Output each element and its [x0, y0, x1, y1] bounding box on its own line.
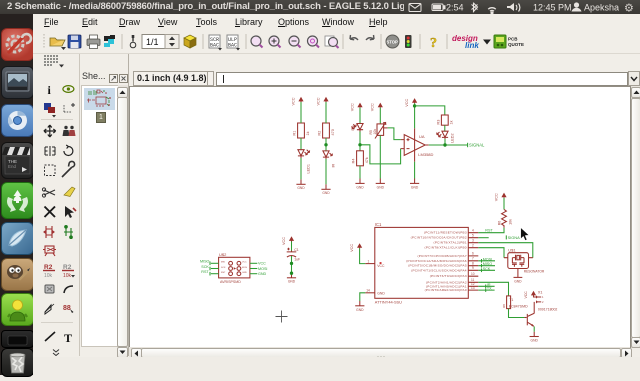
- wire VCC branch to R3: [415, 106, 445, 115]
- VCC supply for C1: [282, 236, 294, 245]
- pin 5 MOSI wire right: [250, 268, 257, 270]
- svg-text:2: 2: [542, 300, 544, 304]
- svg-text:5: 5: [472, 234, 474, 238]
- print: [87, 39, 100, 46]
- svg-text:R6: R6: [497, 221, 501, 226]
- svg-text:(PCINT4/T1/SCL/USCK/ADC4)PA4: (PCINT4/T1/SCL/USCK/ADC4)PA4: [411, 268, 467, 272]
- svg-text:1/1: 1/1: [146, 37, 159, 47]
- svg-text:U$2: U$2: [219, 252, 227, 257]
- launcher: [0, 14, 33, 375]
- op-amp U1A (LM358D): [401, 128, 434, 161]
- svg-text:VCC: VCC: [405, 99, 409, 107]
- wire PB0 to resonator left pin: [478, 248, 504, 258]
- svg-text:2: 2: [472, 244, 474, 248]
- svg-text:RST: RST: [201, 270, 209, 274]
- SCR: [209, 35, 220, 48]
- junction on R2-IR wire: [324, 143, 327, 146]
- wire node A to op-amp -input: [362, 145, 401, 164]
- svg-text:C1: C1: [294, 248, 299, 252]
- IC1 ATTINY44-SSU body: [375, 222, 469, 305]
- open: [50, 40, 65, 46]
- svg-text:(PCINT11/RESET/DW)PB3: (PCINT11/RESET/DW)PB3: [424, 231, 467, 235]
- wire VCC to R1: [300, 102, 302, 123]
- wire VCC to photodiode: [359, 108, 361, 124]
- svg-text:GND: GND: [258, 272, 267, 276]
- svg-text:BC847SMD: BC847SMD: [509, 305, 528, 309]
- svg-text:12:45 PM: 12:45 PM: [533, 3, 572, 13]
- svg-text:MISO: MISO: [483, 262, 493, 266]
- net label SIGNAL (op-amp output): [468, 143, 485, 148]
- svg-text:RESONATOR: RESONATOR: [524, 269, 545, 273]
- wire trimmer to GND: [379, 135, 381, 178]
- ground below op-amp: [410, 179, 419, 190]
- svg-text:MOSI: MOSI: [483, 257, 492, 261]
- IC1 pin 1 VCC: [365, 259, 385, 268]
- svg-text:GND: GND: [322, 191, 330, 195]
- svg-text:SCK: SCK: [201, 265, 209, 269]
- svg-text:GND: GND: [242, 272, 247, 274]
- wire VCC to R2: [325, 102, 327, 123]
- erc traffic light: [405, 35, 412, 48]
- svg-text:GND: GND: [531, 338, 539, 342]
- ULP: [227, 35, 238, 48]
- svg-text:VCC: VCC: [350, 103, 354, 111]
- ground below resonator: [514, 277, 523, 283]
- sheet spinbox: [142, 35, 179, 49]
- svg-text:GND: GND: [288, 280, 296, 284]
- svg-text:SCK: SCK: [221, 267, 226, 269]
- export/cam: [104, 36, 110, 41]
- resistor R3: [437, 115, 454, 125]
- junction on C1 wire (lower): [290, 272, 293, 275]
- svg-text:PD: PD: [351, 125, 355, 130]
- wire photodiode to R4: [359, 132, 361, 151]
- svg-text:⚙: ⚙: [624, 3, 634, 15]
- resistor R8: [502, 296, 510, 309]
- svg-text:RST: RST: [221, 272, 226, 274]
- photodiode D3 (PD): [351, 124, 363, 132]
- svg-text:VCC: VCC: [282, 237, 286, 245]
- GND pin stub C1: [291, 274, 293, 278]
- svg-text:(PCINT10/INT0/OC0A/CKOUT)PB2: (PCINT10/INT0/OC0A/CKOUT)PB2: [411, 236, 467, 240]
- svg-text:47k: 47k: [365, 157, 369, 163]
- svg-text:(PCINT0/AREF/ADC0)PA0: (PCINT0/AREF/ADC0)PA0: [425, 288, 467, 292]
- sheet origin cross: [276, 311, 288, 323]
- svg-text:LED1: LED1: [306, 164, 310, 174]
- svg-text:10k: 10k: [44, 273, 53, 279]
- svg-text:R8: R8: [502, 304, 506, 308]
- svg-text:10k: 10k: [63, 273, 72, 279]
- wire trimmer wiper to op-amp +input: [388, 128, 401, 140]
- svg-text:VCC: VCC: [377, 264, 385, 268]
- pcb quote: [494, 35, 506, 48]
- VCC supply for X1: [524, 291, 536, 299]
- svg-text:QUOTE: QUOTE: [508, 42, 524, 47]
- svg-text:R1: R1: [293, 131, 297, 136]
- pin 1 label MISO wire: [211, 262, 219, 264]
- svg-text:0091718002: 0091718002: [538, 307, 558, 311]
- svg-text:RST: RST: [485, 229, 493, 233]
- svg-text:U$1: U$1: [508, 247, 516, 252]
- mouse cursor: [521, 227, 530, 241]
- VCC supply for R2 chain: [316, 97, 328, 106]
- junction on VCC wire: [413, 104, 416, 107]
- svg-text:(PCINT6/OC1A/SDA/MOSI/ADC6)PA6: (PCINT6/OC1A/SDA/MOSI/ADC6)PA6: [406, 259, 467, 263]
- net label MISO: [200, 260, 210, 266]
- ground below T1: [530, 332, 539, 343]
- VCC supply for IC1: [350, 243, 362, 252]
- svg-text:1k: 1k: [449, 120, 453, 124]
- net label RST: [201, 270, 210, 276]
- resistor R2: [318, 123, 335, 138]
- svg-text:13: 13: [471, 286, 475, 290]
- svg-text:MISO: MISO: [200, 260, 210, 264]
- svg-text:GND: GND: [297, 186, 305, 190]
- svg-text:SIGNAL: SIGNAL: [469, 143, 485, 148]
- junction on C1 wire (upper): [290, 262, 293, 265]
- svg-text:3: 3: [472, 239, 474, 243]
- net label SCK: [201, 265, 210, 271]
- svg-text:BAC: BAC: [228, 43, 237, 49]
- svg-text:VCC: VCC: [524, 291, 528, 299]
- board: [184, 35, 196, 41]
- svg-text:IC1: IC1: [375, 222, 382, 227]
- net label SIGNAL (IC side): [506, 235, 522, 240]
- wire PA1 stub (IR net): [478, 285, 494, 287]
- VCC supply for R6: [494, 193, 506, 202]
- svg-text:MIS: MIS: [221, 262, 225, 264]
- svg-text:6: 6: [472, 252, 474, 256]
- wire T1 emitter to GND: [533, 326, 535, 331]
- svg-text:VCC: VCC: [371, 103, 375, 111]
- svg-text:7: 7: [472, 257, 474, 261]
- svg-text:GND: GND: [377, 185, 385, 189]
- svg-text:R4: R4: [352, 158, 356, 163]
- wire IR to GND: [325, 159, 327, 184]
- wire C1 to GND: [291, 256, 293, 274]
- undo redo: [350, 35, 358, 40]
- svg-text:UA: UA: [419, 134, 425, 139]
- IR LED D2 (IR): [323, 151, 335, 168]
- wire VCC to op-amp V+: [414, 103, 416, 128]
- junction on output at LED2: [443, 143, 446, 146]
- svg-text:14: 14: [366, 289, 370, 293]
- IC1 pin name labels: [406, 231, 467, 292]
- svg-text:VCC: VCC: [291, 97, 295, 105]
- svg-text:2:54: 2:54: [446, 3, 464, 13]
- wire VCC to IC1 pin1: [360, 248, 366, 263]
- net label IR: [486, 283, 491, 288]
- svg-text:IR: IR: [331, 163, 335, 167]
- pin 2 label SCK wire: [211, 268, 219, 270]
- trimmer R5: [369, 123, 388, 139]
- svg-text:MOSI: MOSI: [258, 267, 267, 271]
- wire op-amp V- to GND: [414, 162, 416, 179]
- zoom icons: [251, 36, 339, 48]
- VCC supply for op-amp: [405, 98, 417, 107]
- wire R4 to GND: [359, 166, 361, 179]
- svg-text:i: i: [48, 83, 52, 97]
- svg-text:VCC: VCC: [350, 244, 354, 252]
- wire PA5 stub (MISO net): [478, 265, 495, 267]
- svg-text:LM358D: LM358D: [418, 152, 433, 157]
- wire LED2 to output net: [444, 139, 446, 145]
- svg-text:TX: TX: [487, 287, 492, 291]
- resistor R4: [352, 151, 369, 166]
- svg-text:10k: 10k: [508, 219, 512, 225]
- svg-text:470: 470: [331, 129, 335, 135]
- svg-text:1: 1: [368, 259, 370, 263]
- ground below C1: [287, 278, 296, 284]
- top panel: [0, 0, 640, 14]
- drill tool: [130, 42, 136, 48]
- resistor R6 (zigzag): [497, 209, 512, 227]
- svg-text:88: 88: [63, 305, 71, 312]
- svg-text:VCC: VCC: [494, 193, 498, 201]
- wire R8 to T1 base: [509, 309, 525, 318]
- svg-text:VCC: VCC: [258, 262, 266, 266]
- wire LED1 to GND: [300, 158, 302, 179]
- resistor R1: [293, 123, 310, 138]
- svg-text:link: link: [465, 41, 479, 50]
- wire VCC to C1: [291, 242, 293, 252]
- wire PB1 to resonator right pin: [478, 243, 533, 258]
- svg-text:?: ?: [430, 36, 437, 51]
- net label SCK (IC side): [482, 267, 491, 272]
- svg-text:(PCINT9/XTAL2)PB1: (PCINT9/XTAL2)PB1: [434, 241, 467, 245]
- stop: [386, 35, 399, 48]
- svg-text:(PCINT5/OC1B/MISO/DO/ADC5)PA5: (PCINT5/OC1B/MISO/DO/ADC5)PA5: [408, 264, 467, 268]
- svg-text:(PCINT3/T0/ADC3)PA3: (PCINT3/T0/ADC3)PA3: [430, 274, 467, 278]
- ground below trimmer: [376, 179, 385, 190]
- IC1 right-side pins group: [468, 233, 478, 290]
- wire PA6 stub (MOSI net): [478, 260, 495, 262]
- svg-text:1: 1: [542, 295, 544, 299]
- LED D4 (LED2): [437, 131, 455, 143]
- svg-text:GND: GND: [514, 280, 522, 284]
- transistor T1 labels: [509, 298, 528, 308]
- op-amp output wire: [429, 144, 468, 146]
- IC1 pin 14 GND: [365, 289, 385, 296]
- svg-text:GND: GND: [356, 185, 364, 189]
- VCC supply for photodiode chain: [350, 103, 362, 112]
- junction node A (PD/R4/opamp): [358, 143, 361, 146]
- svg-text:10: 10: [471, 272, 475, 276]
- connector U$2 AVRISPSMD: [219, 252, 250, 284]
- pin 3 label RST wire: [211, 273, 219, 275]
- pin 4 VCC wire right: [250, 262, 257, 264]
- wire VCC to X1 pin 1: [534, 296, 537, 297]
- wire PA4 stub (SCK net): [478, 269, 495, 271]
- svg-text:8: 8: [472, 262, 474, 266]
- svg-text:4: 4: [472, 229, 474, 233]
- svg-text:T: T: [64, 331, 72, 345]
- svg-text:1k: 1k: [306, 131, 310, 135]
- svg-text:MOS: MOS: [242, 267, 248, 269]
- svg-text:BAC: BAC: [210, 43, 219, 49]
- svg-text:VCC: VCC: [316, 97, 320, 105]
- svg-text:1uF: 1uF: [294, 258, 300, 262]
- svg-text:10k: 10k: [373, 129, 377, 135]
- svg-text:R3: R3: [437, 120, 441, 125]
- IC1 right pin numbers: [471, 229, 475, 290]
- wire PB3 to R6 (RST net): [478, 228, 504, 233]
- wire R3 to LED2: [444, 125, 446, 131]
- svg-text:R2: R2: [318, 131, 322, 136]
- ground below IC1: [355, 301, 364, 312]
- wire IC1 pin14 to GND: [360, 293, 366, 301]
- svg-text:GND: GND: [377, 291, 385, 295]
- VCC supply for R1 chain: [291, 97, 303, 106]
- capacitor C1: [287, 248, 300, 262]
- ground below IR: [321, 184, 330, 195]
- svg-text:T1: T1: [509, 298, 513, 302]
- transistor T1 (NPN): [524, 302, 534, 327]
- svg-text:9: 9: [472, 266, 474, 270]
- svg-text:(PCINT7/ICP/OC0B/ADC7)PA7: (PCINT7/ICP/OC0B/ADC7)PA7: [417, 254, 466, 258]
- VCC supply for trimmer chain: [371, 103, 383, 112]
- svg-text:PCB: PCB: [508, 37, 518, 42]
- wire PB2 stub (SIGNAL net): [478, 237, 488, 239]
- net label MISO (IC side): [482, 262, 493, 267]
- net label MOSI (IC side): [482, 257, 493, 262]
- wire R1 to LED1: [300, 138, 302, 150]
- wire PA0 stub (TX net): [478, 289, 494, 291]
- svg-text:ATTINY44-SSU: ATTINY44-SSU: [375, 300, 402, 305]
- save: [68, 35, 81, 48]
- svg-text:STOP: STOP: [387, 40, 399, 45]
- wire VCC to R6: [503, 198, 505, 210]
- svg-text:LED2: LED2: [450, 133, 454, 143]
- svg-text:GND: GND: [411, 185, 419, 189]
- svg-text:VCC: VCC: [242, 262, 247, 264]
- svg-text:SCK: SCK: [483, 267, 491, 271]
- svg-text:End: End: [8, 164, 17, 169]
- connector X1: [536, 290, 557, 311]
- wire R2 to IR diode: [325, 138, 327, 151]
- svg-text:X1: X1: [538, 290, 543, 294]
- svg-text:AVRISPSMD: AVRISPSMD: [220, 280, 241, 284]
- wire VCC to trimmer: [379, 108, 381, 124]
- resonator U$1: [504, 247, 545, 277]
- net label TX: [486, 287, 492, 292]
- svg-text:(PCINT8/XTAL1/CLKI)PB0: (PCINT8/XTAL1/CLKI)PB0: [425, 246, 467, 250]
- svg-text:Apeksha: Apeksha: [584, 3, 619, 13]
- wire PA2 to R8: [478, 282, 508, 296]
- svg-text:GND: GND: [356, 308, 364, 312]
- pin 6 GND wire right: [250, 273, 257, 275]
- ground below R4: [355, 179, 364, 190]
- ground below LED1: [296, 179, 305, 190]
- LED D1 (LED1): [298, 150, 310, 174]
